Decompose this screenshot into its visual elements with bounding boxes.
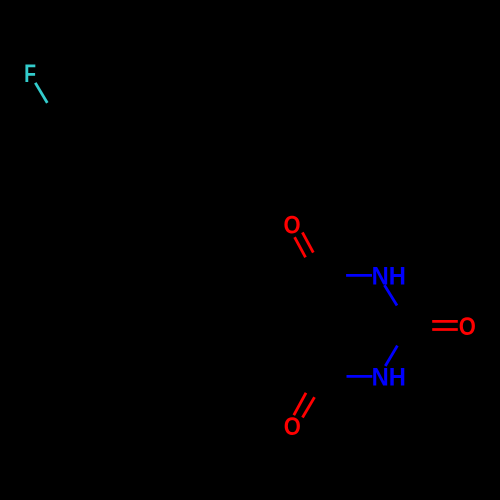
wire C2=O2 double bond red half, lower line bbox=[432, 328, 458, 331]
wire N3-C2 bond blue half (diagonal) bbox=[385, 346, 397, 366]
svg-text:O: O bbox=[284, 211, 301, 239]
wire C4-N3 bond blue half (horizontal) bbox=[347, 375, 373, 378]
wire F-C bond stub (cyan half-bond) bbox=[35, 83, 47, 103]
svg-text:F: F bbox=[24, 60, 36, 88]
svg-text:NH: NH bbox=[372, 263, 406, 291]
atom N1-H (top NH label) bbox=[372, 263, 406, 291]
svg-text:O: O bbox=[459, 313, 476, 341]
wire C6-N1 bond blue half (horizontal) bbox=[346, 274, 372, 277]
atom O2 (right carbonyl oxygen label) bbox=[459, 313, 476, 341]
wire C6=O1 double bond red half, line 2 bbox=[302, 232, 313, 252]
wire C6=O1 double bond red half, line 1 bbox=[295, 237, 306, 257]
atom F (fluorine label) bbox=[24, 60, 36, 88]
atom O3 (bottom carbonyl oxygen label) bbox=[284, 413, 301, 441]
svg-text:NH: NH bbox=[372, 364, 406, 392]
wire C2=O2 double bond red half, upper line bbox=[432, 320, 458, 323]
wire C4=O3 double bond red half, line A bbox=[294, 393, 306, 415]
wire N1-C2 bond blue half (diagonal) bbox=[384, 285, 397, 305]
atom N3-H (bottom NH label) bbox=[372, 364, 406, 392]
svg-text:O: O bbox=[284, 413, 301, 441]
atom O1 (top carbonyl oxygen label) bbox=[284, 211, 301, 239]
wire C4=O3 double bond red half, line B bbox=[303, 397, 315, 417]
